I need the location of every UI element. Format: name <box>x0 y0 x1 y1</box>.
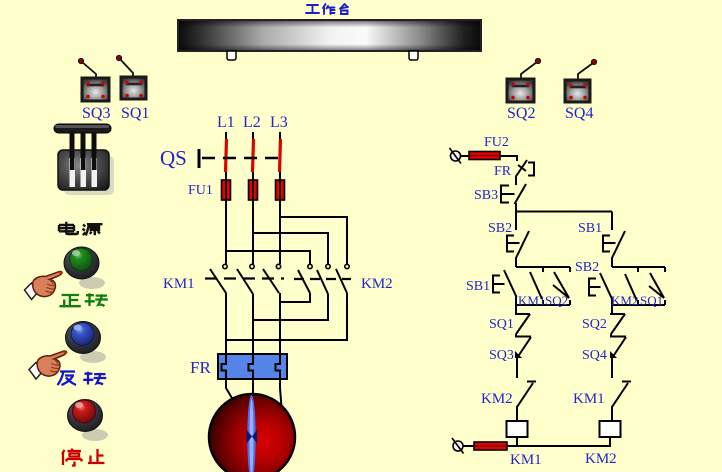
svg-text:KM2: KM2 <box>361 276 393 292</box>
KM1 linkage dashed <box>205 277 284 279</box>
svg-text:SQ1: SQ1 <box>489 317 514 332</box>
svg-text:L2: L2 <box>243 114 261 131</box>
FR NC contact <box>516 160 535 185</box>
parallel group rails left <box>516 267 570 305</box>
svg-text:SQ2: SQ2 <box>507 105 535 122</box>
svg-text:SB2: SB2 <box>488 221 512 236</box>
worktable leg left <box>227 51 236 60</box>
KM2 linkage dashed <box>294 278 351 280</box>
svg-text:FR: FR <box>494 164 512 179</box>
KM1 contact blades <box>210 269 279 294</box>
KM2 contact terminals <box>308 264 349 268</box>
limit contact SQ3 <box>515 334 531 378</box>
KM1 upper stubs <box>226 200 280 264</box>
svg-text:QS: QS <box>160 146 187 170</box>
svg-text:SQ1: SQ1 <box>121 105 149 122</box>
wire KM2 coil to bus <box>609 437 611 446</box>
label 停止 <box>62 449 105 466</box>
svg-text:KM2: KM2 <box>611 293 638 308</box>
svg-text:SQ1: SQ1 <box>640 293 663 308</box>
interlock KM2 (NC) <box>517 382 536 422</box>
svg-text:SQ4: SQ4 <box>582 348 607 363</box>
svg-text:KM1: KM1 <box>573 391 605 407</box>
QS knife blades (red) <box>226 139 281 172</box>
limit contact SQ4 <box>610 334 626 378</box>
red button 停止 <box>68 400 109 442</box>
wire KM1 coil to bus <box>516 437 518 446</box>
KM1 aux contact blade <box>530 272 542 299</box>
svg-text:KM2: KM2 <box>481 391 513 407</box>
label 工作台 <box>306 4 348 14</box>
KM2 output crossover wires <box>280 293 310 302</box>
svg-text:SQ2: SQ2 <box>582 317 607 332</box>
blue button 反转 <box>66 322 107 364</box>
hand pointer 2 <box>29 351 67 379</box>
svg-text:SB3: SB3 <box>474 188 498 203</box>
svg-text:KM1: KM1 <box>518 293 545 308</box>
thermal relay FR box <box>218 354 287 379</box>
limit contact SQ2 <box>610 305 625 334</box>
limit switch SQ1 <box>116 55 146 99</box>
limit switch SQ4 <box>565 59 597 102</box>
svg-text:FR: FR <box>190 358 211 377</box>
wires FR to motor <box>226 379 282 407</box>
fuse FU1 a <box>222 180 231 200</box>
hand pointer 1 <box>25 272 63 300</box>
jog button SB1 (NO, in line) <box>493 270 517 305</box>
label 电源 <box>59 222 103 236</box>
KM2 contact blades <box>298 269 347 294</box>
svg-text:L1: L1 <box>217 114 235 131</box>
svg-text:SB2: SB2 <box>575 260 599 275</box>
interlock KM1 (NC) <box>612 382 631 422</box>
label 反转 <box>58 372 107 386</box>
parallel group rails right <box>612 267 665 305</box>
fuse FU1 b <box>249 180 258 200</box>
SQ1 aux contact <box>649 273 664 298</box>
label 正转 <box>59 293 107 306</box>
fuse FU1 c <box>276 180 285 200</box>
SQ3 wedge <box>515 351 522 358</box>
KM2 aux contact blade <box>625 274 637 301</box>
motor <box>209 394 295 472</box>
start button SB1 (NO) <box>603 212 625 268</box>
SQ4 wedge <box>610 351 617 358</box>
power terminal top <box>450 148 462 164</box>
svg-text:SB1: SB1 <box>466 279 490 294</box>
KM1 contact terminals <box>223 264 281 268</box>
worktable bar <box>178 20 481 60</box>
coil KM2 <box>600 421 621 437</box>
svg-text:SB1: SB1 <box>578 221 602 236</box>
bottom bus <box>507 445 611 447</box>
svg-text:KM1: KM1 <box>163 276 195 292</box>
svg-text:SQ4: SQ4 <box>565 105 593 122</box>
svg-text:SQ3: SQ3 <box>489 348 514 363</box>
fuse FU2 <box>460 152 517 162</box>
limit switch SQ2 <box>507 58 541 102</box>
wire through fuses <box>226 180 280 200</box>
QS pole bar <box>198 149 201 168</box>
start button SB2 (NO) <box>507 211 529 267</box>
phase line L3 <box>279 132 281 379</box>
worktable leg right <box>409 51 418 60</box>
svg-text:KM1: KM1 <box>510 452 542 468</box>
node split to both branches <box>516 211 612 213</box>
svg-text:KM2: KM2 <box>585 451 617 467</box>
fuse bottom <box>474 442 507 450</box>
wire branch L2 to KM2 input <box>253 233 328 264</box>
QS linkage dashed line <box>202 157 285 159</box>
svg-text:L3: L3 <box>270 114 288 131</box>
phase line L2 <box>252 132 254 379</box>
limit contact SQ1 <box>515 305 530 334</box>
jog button SB2 (NO, in line) <box>589 273 613 305</box>
wire branch L1 to KM2 input <box>226 251 310 264</box>
green button 正转 <box>64 247 105 289</box>
power terminal bottom <box>452 438 475 454</box>
coil KM1 <box>507 421 528 437</box>
limit switch SQ3 <box>78 58 109 101</box>
stop button SB3 (NC) <box>501 184 526 211</box>
power knife switch graphic <box>54 124 114 195</box>
svg-text:FU1: FU1 <box>188 183 213 198</box>
phase line L1 <box>225 132 227 379</box>
SQ2 aux contact <box>553 272 569 298</box>
wire branch L3 to KM2 input <box>280 217 347 264</box>
svg-text:SQ3: SQ3 <box>82 105 110 122</box>
svg-text:FU2: FU2 <box>484 135 509 150</box>
svg-text:SQ2: SQ2 <box>545 293 568 308</box>
